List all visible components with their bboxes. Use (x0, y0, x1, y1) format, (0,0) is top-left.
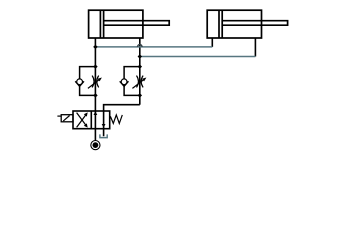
U1 divider (90, 111, 92, 129)
U1 right box down-arrow head (102, 124, 106, 128)
U1 body (73, 111, 110, 129)
node: V1 bottom (93, 93, 98, 98)
node: V2 bottom (138, 93, 143, 98)
cylinder 2 (double-acting, right) (207, 10, 287, 38)
V2 check valve seat (120, 81, 129, 86)
cylinder 1 (double-acting, left) (89, 10, 170, 38)
node: line B tap (138, 54, 143, 59)
flow control valve V2 (check + throttle) (120, 67, 147, 96)
V1 check valve seat (75, 81, 84, 86)
wire: cylinder1 right port down to flow valve 2 (139, 38, 141, 105)
wire: gray line A joining left ports of both cylinders (95, 46, 212, 48)
cylinder 2 piston rod (222, 21, 287, 26)
source inner disc (93, 142, 99, 148)
V2 throttle arcs (137, 76, 139, 88)
cylinder 1 body (89, 10, 143, 38)
U1 left box crossed arrow 1 (77, 114, 87, 127)
wire: flow valve 2 output to 4/2 valve right top port (104, 105, 140, 137)
cylinder 1 piston rod (104, 21, 170, 26)
source outer ring (91, 141, 100, 150)
V1 check branch wire (80, 67, 96, 96)
V1 check valve ball (77, 79, 83, 85)
wire: gray line B joining right ports of both cylinders (140, 56, 256, 58)
solenoid Y1 (61, 115, 73, 122)
U1 left box crossed arrow 2 (77, 113, 87, 126)
solenoid diagonal (63, 116, 69, 122)
V1 throttle arrow (88, 80, 99, 89)
V1 throttle arcs (92, 76, 94, 88)
V2 throttle arrow (132, 80, 143, 89)
flow control valve V1 (check + throttle) (75, 67, 102, 96)
exhaust (gray U) (100, 134, 107, 137)
4/2-way valve U1 (57, 111, 122, 129)
node: line A tap (93, 45, 98, 50)
wire hop (line jump) over valve-2 drop (138, 45, 142, 47)
V2 check branch wire (124, 67, 140, 96)
U1 right box up-arrow head (line drawn by through wire) (94, 111, 98, 115)
cylinder 2 body (207, 10, 261, 38)
solenoid pin (57, 115, 61, 117)
spring (return) (110, 115, 122, 124)
wire: cylinder2 left port stub (211, 38, 213, 47)
wire: cylinder2 right port stub (254, 38, 256, 57)
compressed air source (91, 141, 100, 150)
cylinder 2 piston (218, 10, 220, 38)
V2 check valve ball (121, 79, 127, 85)
wire: cylinder1 left port down to flow valve 1 and 4/2 valve (94, 38, 96, 141)
cylinder 1 piston (99, 10, 101, 38)
node: V2 top (138, 64, 143, 69)
node: V1 top (93, 64, 98, 69)
